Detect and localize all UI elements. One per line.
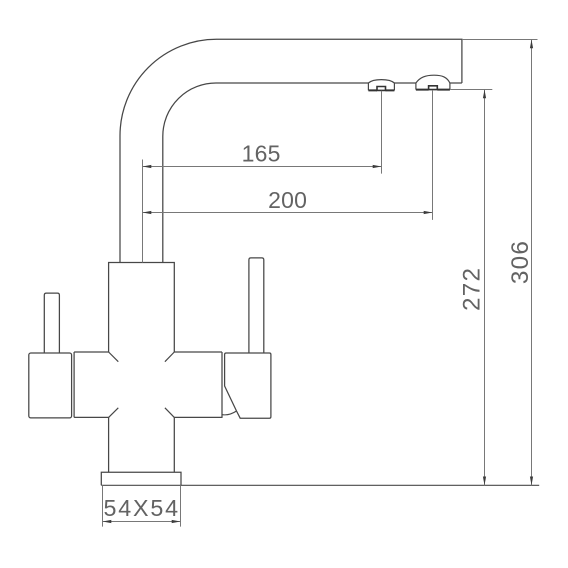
arrow 272 top [483,90,486,99]
chamfer top-right [165,352,174,362]
svg-text:200: 200 [268,187,307,213]
dimension line 165 [143,166,382,168]
base plate [101,472,181,485]
arrow 54 left [103,520,112,523]
dimension line 306 [531,40,533,486]
dimension line 272 [484,90,486,486]
right lever [249,258,264,353]
extension line 306 top [462,39,538,41]
dimension line 54 [103,521,181,523]
left arm top edge [74,351,109,353]
big aerator sides [416,83,450,90]
ground baseline [101,484,539,486]
extension line 54 left [102,485,104,526]
arrow 306 top [530,40,533,49]
arrow 165 right [373,165,382,168]
spout inner contour (pipe inner edge and inner bend) [163,83,217,263]
right handle bottom arc [222,411,237,415]
right handle block [225,353,271,418]
svg-text:165: 165 [242,141,281,167]
spout outer contour (left pipe outer edge, bend, top line, right end cap) [120,39,462,262]
big aerator bottom with nozzle notch [416,89,450,91]
small aerator bottom with nozzle notch [368,89,394,91]
right arm end [221,352,223,418]
body top block [109,263,175,353]
arrow 272 bottom [483,477,486,486]
spout bottom line segments [217,82,462,84]
left arm bottom edge [74,416,109,418]
right arm bottom edge [174,416,222,418]
left handle block [29,353,72,418]
chamfer bottom-right [165,408,174,418]
chamfer top-left [109,352,119,362]
big aerator nozzle [429,86,438,90]
left lever [44,293,59,352]
dimension line 200 [143,212,433,214]
svg-text:54X54: 54X54 [104,495,180,521]
arrow 165 left [143,165,152,168]
small aerator nozzle [377,87,386,91]
extension line pipe centre [142,160,144,263]
small aerator dome [368,80,394,83]
arrow 54 right [172,520,181,523]
small aerator sides [368,83,394,90]
right arm top edge [174,351,222,353]
extension line big aerator [432,90,434,220]
svg-text:306: 306 [507,240,534,284]
lower column [109,417,175,472]
arrow 200 right [424,211,433,214]
svg-text:272: 272 [458,267,485,311]
arrow 200 left [143,211,152,214]
arrow 306 bottom [530,477,533,486]
left arm end [73,352,75,417]
chamfer bottom-left [109,408,119,418]
big aerator dome [416,75,450,83]
extension line 272 top [451,89,493,91]
extension line 54 right [180,485,182,526]
extension line small aerator [381,91,383,174]
